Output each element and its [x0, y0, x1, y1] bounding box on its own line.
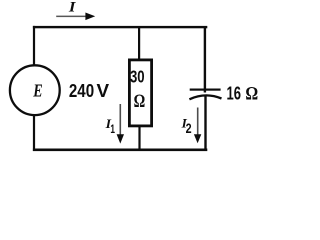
- svg-text:16: 16: [227, 83, 242, 104]
- wire bottom horizontal: [33, 149, 207, 152]
- svg-text:V: V: [97, 80, 110, 101]
- svg-text:30: 30: [130, 67, 145, 87]
- wire left vertical lower: [33, 114, 35, 151]
- svg-text:E: E: [32, 81, 42, 101]
- wire left vertical upper: [33, 26, 35, 66]
- svg-text:Ω: Ω: [134, 91, 146, 112]
- current arrow I2: [197, 108, 199, 136]
- wire middle vertical upper: [138, 27, 140, 61]
- svg-text:I: I: [68, 0, 77, 16]
- capacitor C top plate: [190, 89, 221, 91]
- resistor R 30 ohm: [129, 60, 151, 126]
- current arrow I (top): [56, 16, 86, 18]
- current arrow I1: [120, 104, 122, 136]
- svg-text:240: 240: [69, 80, 94, 101]
- svg-text:Ω: Ω: [245, 84, 258, 105]
- source E circle U1: [10, 65, 60, 115]
- wire top horizontal: [33, 26, 207, 28]
- wire right vertical lower: [204, 97, 206, 152]
- wire middle vertical lower: [138, 125, 140, 151]
- svg-text:1: 1: [110, 123, 115, 136]
- svg-text:2: 2: [186, 121, 192, 136]
- wire right vertical upper: [204, 27, 206, 93]
- capacitor C bottom plate (curved): [189, 95, 221, 99]
